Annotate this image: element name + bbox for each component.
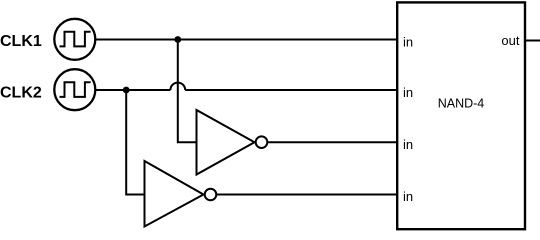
wire node B down and right to inverter U2 input bbox=[126, 90, 145, 195]
clock source CLK2 bbox=[54, 69, 95, 110]
svg-text:NAND-4: NAND-4 bbox=[438, 97, 485, 111]
svg-text:in: in bbox=[403, 137, 413, 152]
wire hop over vertical wire bbox=[170, 83, 185, 90]
NAND-4 gate U3 box bbox=[397, 2, 525, 229]
wire hop to NAND in2 bbox=[185, 89, 397, 91]
svg-text:in: in bbox=[403, 189, 413, 204]
wire U1 output to NAND in3 bbox=[267, 141, 397, 143]
svg-text:out: out bbox=[501, 33, 519, 48]
wire NAND out stub bbox=[525, 40, 540, 42]
clock source CLK1 bbox=[54, 19, 95, 60]
inverter U1 bbox=[197, 110, 268, 175]
junction node A on CLK1 wire bbox=[174, 36, 181, 43]
wire node A down and right to inverter U1 input bbox=[178, 40, 197, 143]
svg-text:in: in bbox=[403, 35, 413, 50]
wire U2 output to NAND in4 bbox=[216, 194, 397, 196]
svg-text:CLK2: CLK2 bbox=[0, 85, 42, 102]
wire CLK2 to hop bbox=[95, 89, 170, 91]
svg-text:in: in bbox=[403, 85, 413, 100]
inverter U2 bbox=[145, 161, 217, 227]
svg-text:CLK1: CLK1 bbox=[0, 33, 42, 50]
junction node B on CLK2 wire bbox=[123, 87, 130, 94]
wire CLK1 to NAND in1 bbox=[95, 39, 397, 41]
